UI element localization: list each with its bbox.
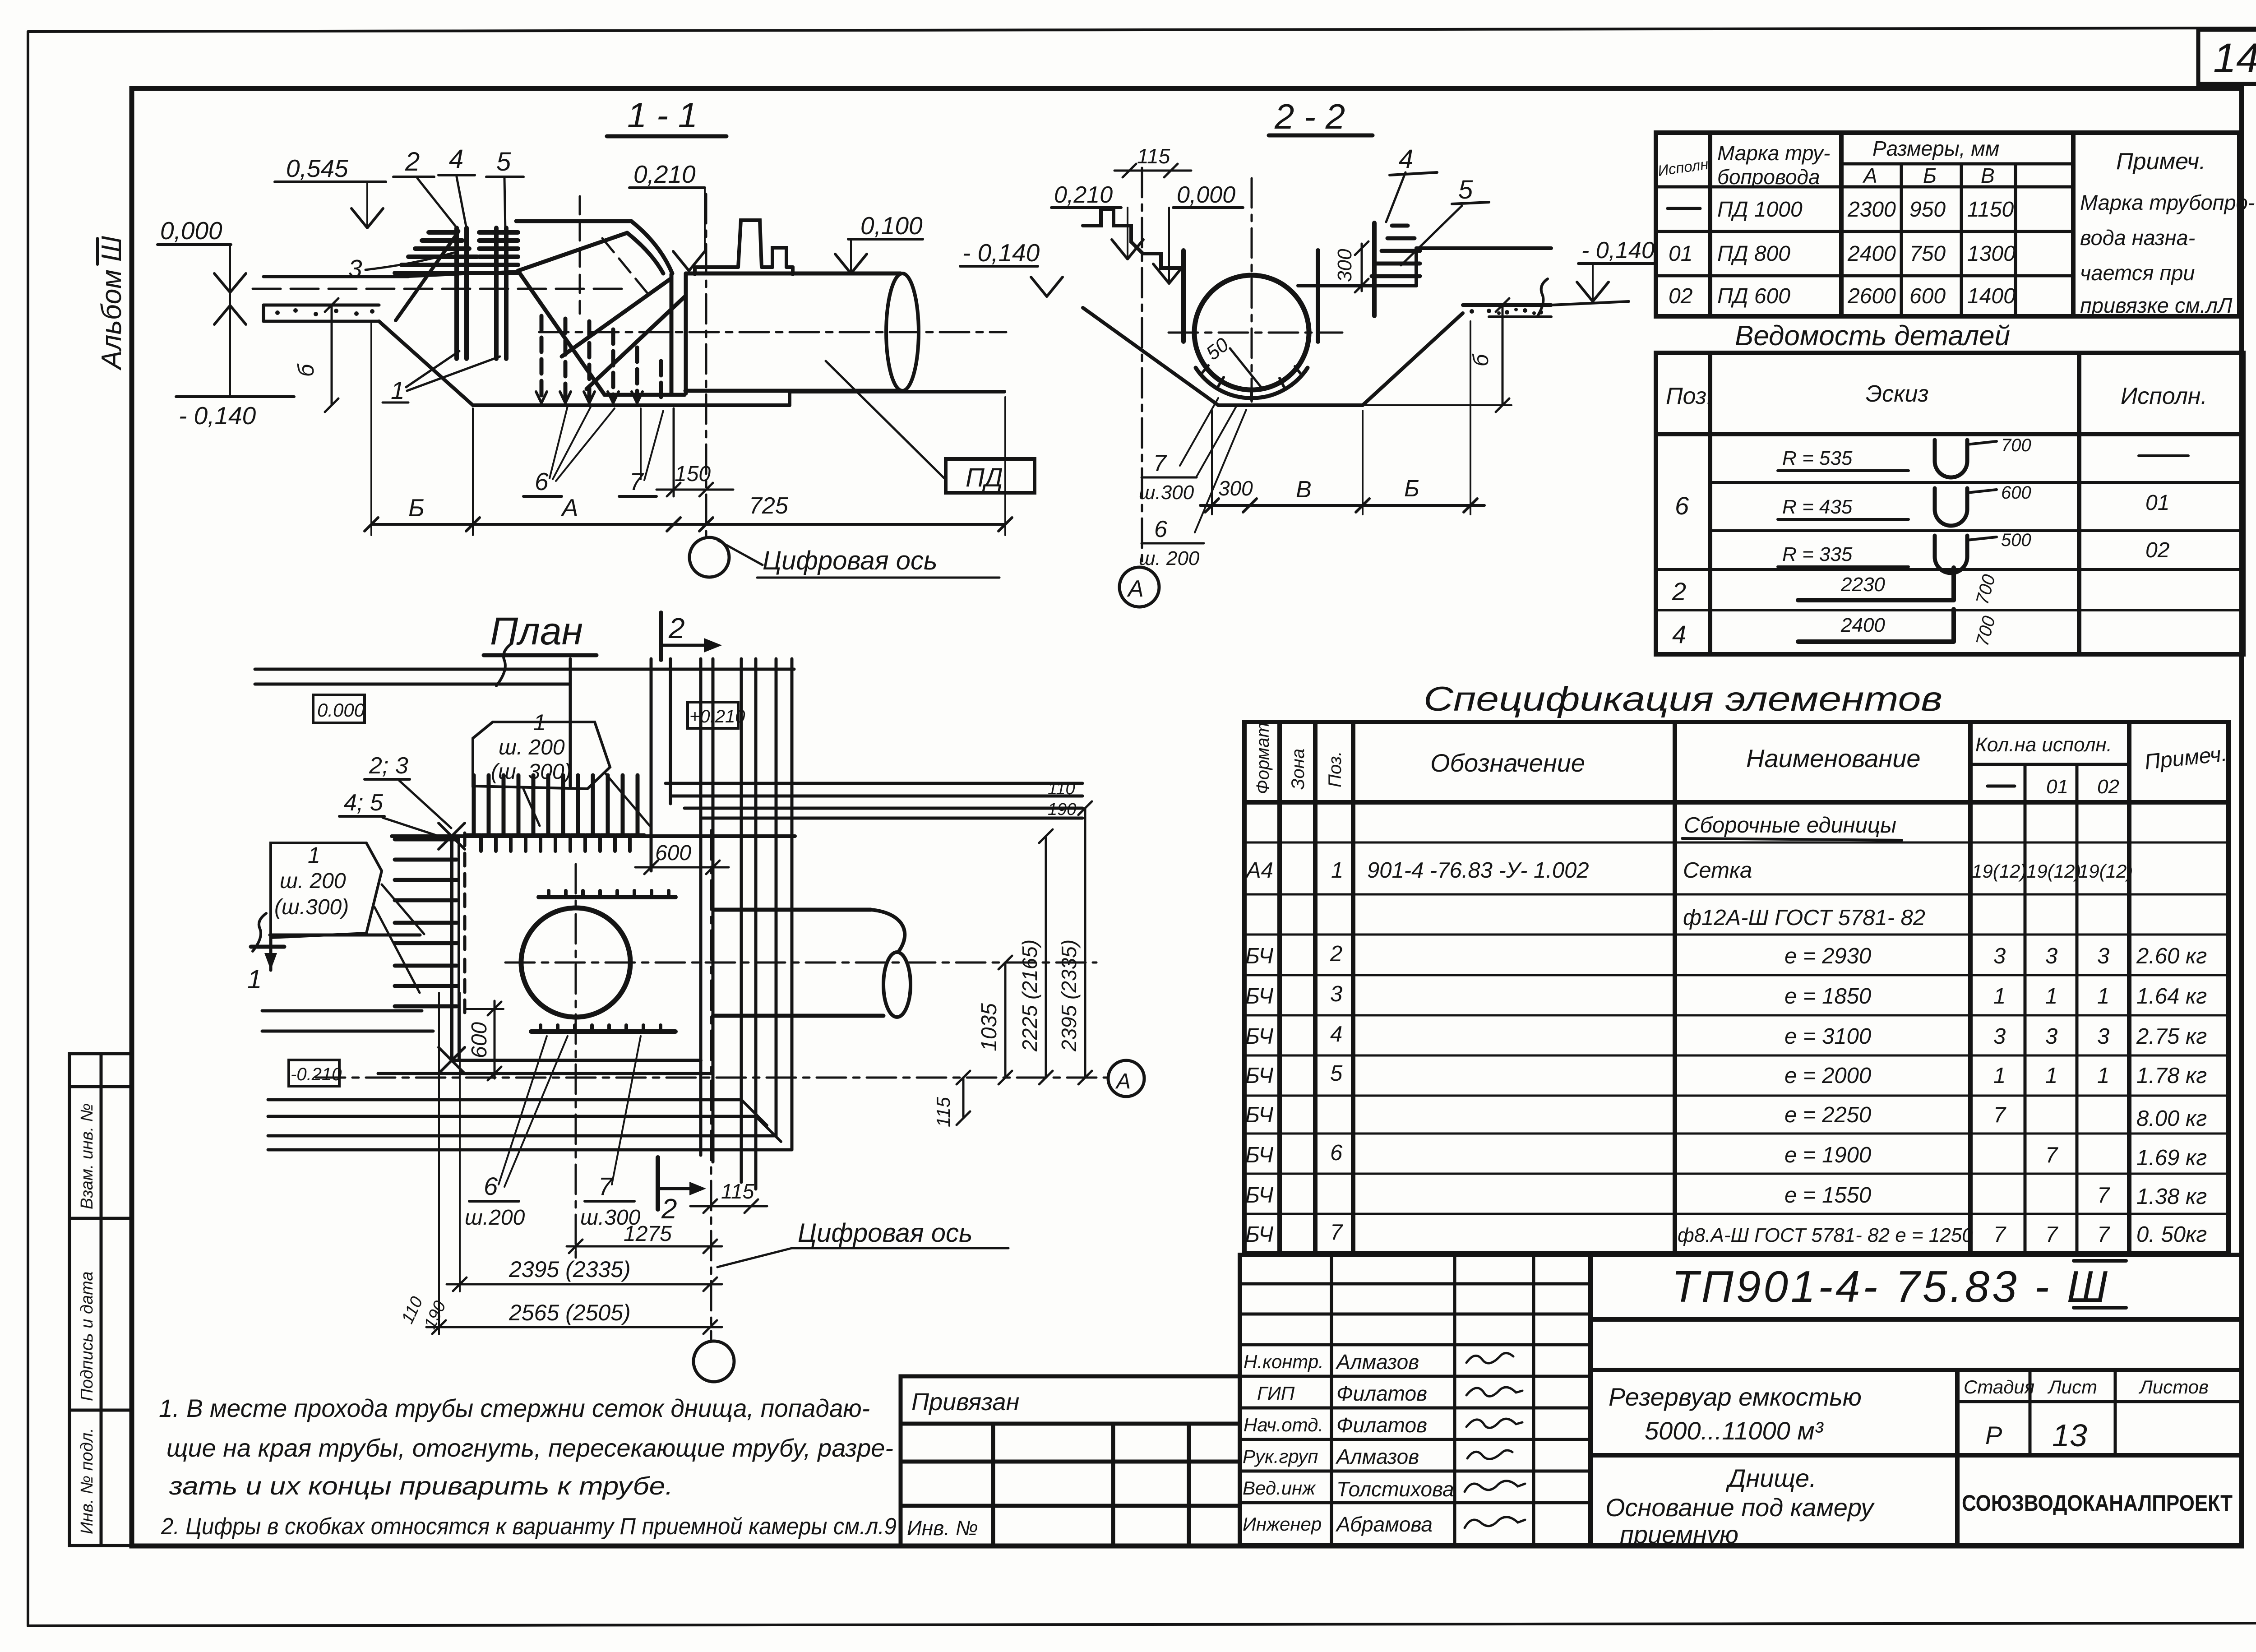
elevation -0,140 (2-2 right) xyxy=(1551,264,1654,305)
svg-text:привязке см.лЛ: привязке см.лЛ xyxy=(2080,293,2233,317)
svg-text:ш.200: ш.200 xyxy=(465,1206,525,1230)
left stamp strip xyxy=(69,1054,132,1546)
svg-text:3: 3 xyxy=(2045,1024,2057,1049)
foundation funnel body xyxy=(516,221,686,395)
svg-text:СОЮЗВОДОКАНАЛПРОЕКТ: СОЮЗВОДОКАНАЛПРОЕКТ xyxy=(1962,1490,2233,1516)
big circle pipe hole xyxy=(521,908,630,1017)
svg-text:Исполн.: Исполн. xyxy=(2121,383,2207,409)
svg-text:Н.контр.: Н.контр. xyxy=(1244,1351,1324,1372)
svg-text:Инв. №: Инв. № xyxy=(907,1516,978,1540)
specification rows text xyxy=(1245,813,2207,1247)
svg-text:4: 4 xyxy=(1330,1022,1342,1046)
svg-text:6: 6 xyxy=(484,1172,498,1200)
svg-text:2225 (2165): 2225 (2165) xyxy=(1018,939,1041,1052)
sketch pos4 bar 2400 xyxy=(1798,609,1999,648)
elevation mark 0,100 xyxy=(835,239,923,273)
svg-text:500: 500 xyxy=(2001,530,2031,550)
specification header texts xyxy=(1253,722,1345,794)
svg-text:Кол.на исполн.: Кол.на исполн. xyxy=(1975,734,2112,756)
svg-text:1: 1 xyxy=(1331,858,1343,883)
svg-text:Вед.инж: Вед.инж xyxy=(1243,1477,1316,1499)
sketch R=335 xyxy=(1778,530,2031,573)
pit slope and bottom xyxy=(379,321,1004,405)
svg-text:б: б xyxy=(293,363,319,377)
teeth row lower xyxy=(531,1029,675,1034)
svg-text:3: 3 xyxy=(2097,1024,2109,1049)
svg-text:0,210: 0,210 xyxy=(1054,182,1113,208)
svg-text:ПД: ПД xyxy=(966,463,1003,492)
svg-text:Размеры, мм: Размеры, мм xyxy=(1872,137,1999,160)
svg-text:950: 950 xyxy=(1909,198,1946,222)
plan top edge lines xyxy=(255,669,794,684)
svg-text:19(12): 19(12) xyxy=(2026,861,2081,882)
stadia list listov xyxy=(1957,1370,2242,1455)
svg-text:Марка трубопро-: Марка трубопро- xyxy=(2080,190,2255,214)
svg-text:7: 7 xyxy=(1993,1103,2006,1127)
svg-text:01: 01 xyxy=(2145,491,2169,515)
left section mark 1 xyxy=(247,937,284,994)
vedomost table grid xyxy=(1656,353,2243,654)
svg-text:4; 5: 4; 5 xyxy=(344,790,384,816)
svg-text:БЧ: БЧ xyxy=(1245,1064,1274,1088)
svg-text:(ш.300): (ш.300) xyxy=(274,895,349,919)
elevation mark -0,140 mid xyxy=(960,266,1063,296)
svg-text:Б: Б xyxy=(408,494,425,522)
svg-text:300: 300 xyxy=(1334,249,1356,282)
svg-text:Днище.: Днище. xyxy=(1725,1464,1817,1492)
object name xyxy=(1605,1383,1875,1549)
svg-text:Альбом Ш: Альбом Ш xyxy=(96,236,127,371)
svg-text:Листов: Листов xyxy=(2138,1376,2209,1397)
svg-text:R = 435: R = 435 xyxy=(1782,496,1853,518)
svg-text:Подпись и дата: Подпись и дата xyxy=(78,1272,97,1401)
bottom dimension (2-2) xyxy=(1200,321,1484,514)
svg-text:А: А xyxy=(1127,576,1144,602)
svg-text:1.38 кг: 1.38 кг xyxy=(2136,1185,2207,1209)
svg-text:0,000: 0,000 xyxy=(160,217,222,245)
svg-text:901-4 -76.83 -У- 1.002: 901-4 -76.83 -У- 1.002 xyxy=(1367,858,1589,883)
svg-text:Поз.: Поз. xyxy=(1325,751,1345,788)
svg-text:2. Цифры в скобках относятся к: 2. Цифры в скобках относятся к варианту … xyxy=(161,1513,897,1540)
svg-text:1: 1 xyxy=(2045,984,2057,1009)
svg-text:e = 2250: e = 2250 xyxy=(1784,1103,1871,1127)
svg-text:ГИП: ГИП xyxy=(1257,1383,1295,1404)
elevation mark 0,000 left xyxy=(157,245,246,397)
svg-text:- 0,140: - 0,140 xyxy=(179,402,256,430)
svg-text:3: 3 xyxy=(2097,944,2109,968)
notes text xyxy=(159,1394,897,1540)
svg-text:Наименование: Наименование xyxy=(1746,744,1920,773)
svg-text:Б: Б xyxy=(1404,476,1419,502)
bottom axis bubble plan xyxy=(693,1341,734,1382)
svg-text:А: А xyxy=(1862,164,1877,187)
label 7 sh300 plan xyxy=(580,1036,641,1230)
svg-text:7: 7 xyxy=(1330,1220,1343,1245)
svg-text:700: 700 xyxy=(2001,435,2031,455)
svg-text:БЧ: БЧ xyxy=(1245,984,1274,1009)
pipe mark table grid xyxy=(1656,133,2239,316)
names labels xyxy=(1243,1351,1324,1535)
svg-text:02: 02 xyxy=(2145,538,2169,562)
top mesh hatch xyxy=(474,775,638,834)
svg-text:6: 6 xyxy=(535,467,549,495)
pipe mark table header texts xyxy=(1657,137,2206,189)
svg-text:БЧ: БЧ xyxy=(1245,1222,1274,1247)
mesh stack (2-2) xyxy=(1372,226,1420,276)
dash in first row xyxy=(1668,207,1700,210)
svg-text:4: 4 xyxy=(1399,144,1413,174)
svg-text:3: 3 xyxy=(1993,944,2006,968)
west channel top wall line xyxy=(270,934,420,937)
circle center cross xyxy=(1169,332,1342,334)
svg-text:Сетка: Сетка xyxy=(1683,858,1752,883)
svg-text:110: 110 xyxy=(1048,779,1075,798)
castellated wall above pipe xyxy=(695,220,793,274)
svg-text:2: 2 xyxy=(661,1194,677,1225)
svg-text:600: 600 xyxy=(2001,483,2031,503)
designation text xyxy=(1672,1261,2126,1311)
svg-text:Взам. инв. №: Взам. инв. № xyxy=(78,1103,97,1209)
svg-text:ПД 800: ПД 800 xyxy=(1717,242,1790,266)
pit top edge xyxy=(392,834,795,838)
svg-text:3: 3 xyxy=(348,255,362,282)
svg-text:Резервуар емкостью: Резервуар емкостью xyxy=(1609,1383,1862,1411)
rebar labels 2 4 5 xyxy=(393,144,523,231)
vertical axis line xyxy=(705,194,707,537)
svg-text:14: 14 xyxy=(2213,35,2256,81)
svg-text:700: 700 xyxy=(1972,614,1999,648)
svg-text:7: 7 xyxy=(2045,1222,2058,1247)
left break squiggle plan xyxy=(253,913,266,951)
svg-text:750: 750 xyxy=(1909,242,1946,266)
svg-text:1: 1 xyxy=(308,842,320,868)
svg-text:БЧ: БЧ xyxy=(1245,1183,1274,1208)
svg-text:Марка тру-: Марка тру- xyxy=(1717,141,1830,165)
svg-text:1400: 1400 xyxy=(1967,284,2016,308)
axis bubble A (2-2) xyxy=(1119,567,1159,607)
svg-text:e = 2930: e = 2930 xyxy=(1784,944,1871,968)
svg-text:Стадия: Стадия xyxy=(1964,1376,2034,1397)
svg-text:3: 3 xyxy=(1330,982,1342,1006)
step lines right xyxy=(1298,248,1551,286)
svg-text:3: 3 xyxy=(2045,944,2057,968)
vedomost header texts xyxy=(1666,381,2207,409)
svg-text:1 - 1: 1 - 1 xyxy=(627,95,698,135)
svg-text:0.000: 0.000 xyxy=(317,699,365,721)
svg-text:700: 700 xyxy=(1972,572,1999,606)
svg-text:Ведомость деталей: Ведомость деталей xyxy=(1735,320,2010,352)
svg-text:Исполн.: Исполн. xyxy=(1657,155,1714,179)
svg-text:+0.210: +0.210 xyxy=(689,707,745,727)
sheet number box 14 xyxy=(2198,30,2256,84)
pipe mark note text xyxy=(2080,190,2255,317)
svg-text:13: 13 xyxy=(2052,1418,2087,1453)
elevation mark 0,545 xyxy=(275,182,386,228)
svg-text:2: 2 xyxy=(1672,577,1686,606)
svg-text:А: А xyxy=(560,494,578,522)
svg-text:-0.210: -0.210 xyxy=(291,1064,342,1084)
svg-text:зать и их концы приварить к т: зать и их концы приварить к трубе. xyxy=(169,1472,673,1500)
underline for sborochnye xyxy=(1682,838,1902,840)
svg-text:2; 3: 2; 3 xyxy=(369,753,408,779)
svg-text:1: 1 xyxy=(1993,1064,2006,1088)
svg-text:Р: Р xyxy=(1985,1421,2002,1449)
svg-text:4: 4 xyxy=(449,144,463,174)
svg-text:0. 50кг: 0. 50кг xyxy=(2136,1222,2207,1247)
svg-text:2565 (2505): 2565 (2505) xyxy=(509,1300,631,1325)
elevation mark -0,140 left xyxy=(176,395,294,398)
svg-text:7: 7 xyxy=(2097,1183,2110,1208)
stamp strip labels xyxy=(78,1103,97,1534)
svg-text:1300: 1300 xyxy=(1967,242,2016,266)
ground line left xyxy=(264,275,408,278)
svg-text:0,100: 0,100 xyxy=(860,212,923,240)
svg-text:ш.300: ш.300 xyxy=(1139,481,1194,504)
svg-text:1035: 1035 xyxy=(977,1003,1001,1051)
svg-text:щие на края трубы, отогнуть, п: щие на края трубы, отогнуть, пересекающи… xyxy=(166,1434,893,1462)
svg-text:e = 3100: e = 3100 xyxy=(1784,1024,1871,1049)
svg-text:4: 4 xyxy=(1672,620,1686,648)
internal dash lines xyxy=(580,196,652,314)
axis dashed line xyxy=(253,288,629,290)
top callout 1 sh200 xyxy=(473,710,650,826)
svg-text:вода назна-: вода назна- xyxy=(2080,226,2195,250)
svg-text:- 0,140: - 0,140 xyxy=(962,239,1040,267)
pipe in plan xyxy=(713,910,883,1016)
svg-text:02: 02 xyxy=(1669,284,1692,308)
svg-text:1275: 1275 xyxy=(624,1222,672,1246)
svg-text:Цифровая ось: Цифровая ось xyxy=(763,546,938,575)
svg-text:R = 335: R = 335 xyxy=(1782,543,1853,565)
svg-text:Поз.: Поз. xyxy=(1666,383,1713,409)
svg-text:1150: 1150 xyxy=(1967,198,2014,222)
svg-text:Обозначение: Обозначение xyxy=(1430,749,1585,777)
teeth row upper xyxy=(539,895,675,899)
svg-text:5000...11000 м³: 5000...11000 м³ xyxy=(1645,1416,1824,1445)
svg-text:1.78 кг: 1.78 кг xyxy=(2136,1064,2207,1088)
axis bubble xyxy=(689,537,729,577)
corner diagonal joins xyxy=(741,1100,781,1142)
pit bottom lines xyxy=(378,1060,713,1074)
svg-text:Б: Б xyxy=(1923,164,1937,187)
title block outer lines xyxy=(1240,1255,2242,1546)
svg-text:19(12): 19(12) xyxy=(2078,861,2133,882)
album label rotated xyxy=(96,236,127,371)
svg-text:600: 600 xyxy=(1909,284,1946,308)
section 1-1 title xyxy=(607,95,726,136)
svg-text:Нач.отд.: Нач.отд. xyxy=(1244,1414,1323,1435)
svg-text:ПД 600: ПД 600 xyxy=(1717,284,1790,308)
svg-text:приемную: приемную xyxy=(1620,1520,1738,1549)
svg-text:2.60 кг: 2.60 кг xyxy=(2136,944,2207,968)
svg-text:План: План xyxy=(490,610,583,653)
svg-text:БЧ: БЧ xyxy=(1245,1024,1274,1049)
circled A plan xyxy=(1108,1060,1144,1097)
svg-text:2300: 2300 xyxy=(1847,198,1896,222)
pipe body xyxy=(685,273,901,391)
svg-text:Филатов: Филатов xyxy=(1336,1382,1427,1405)
hidden edge dashed inside pit xyxy=(458,838,460,1060)
PD box xyxy=(826,361,1035,493)
pipe centerline xyxy=(539,331,1006,333)
bank profile left (2-2) xyxy=(1083,209,1184,268)
svg-text:725: 725 xyxy=(749,493,789,519)
svg-text:7: 7 xyxy=(1993,1222,2006,1247)
svg-text:Привязан: Привязан xyxy=(911,1388,1019,1416)
svg-text:Толстихова: Толстихова xyxy=(1336,1477,1454,1501)
dim 115 top xyxy=(1114,144,1191,177)
svg-text:0,545: 0,545 xyxy=(286,154,348,182)
bedding ticks xyxy=(1202,366,1301,400)
svg-text:БЧ: БЧ xyxy=(1245,1103,1274,1127)
svg-text:0,210: 0,210 xyxy=(633,160,696,188)
svg-text:2: 2 xyxy=(405,147,420,176)
labels 6 sh200 (2-2) xyxy=(1139,410,1246,569)
svg-text:5: 5 xyxy=(1458,175,1473,204)
svg-text:Лист: Лист xyxy=(2047,1376,2097,1397)
svg-text:6: 6 xyxy=(1154,516,1167,542)
svg-text:(ш. 300): (ш. 300) xyxy=(491,760,572,784)
svg-text:Спецификация элементов: Спецификация элементов xyxy=(1424,680,1942,718)
rebar dowels vertical xyxy=(457,228,506,359)
specification table grid xyxy=(1244,722,2228,1253)
svg-text:7: 7 xyxy=(1153,450,1167,477)
svg-text:Цифровая ось: Цифровая ось xyxy=(798,1218,973,1248)
svg-text:600: 600 xyxy=(655,841,691,865)
svg-text:Алмазов: Алмазов xyxy=(1335,1350,1419,1374)
svg-text:2.75 кг: 2.75 кг xyxy=(2136,1024,2207,1049)
svg-text:1.69 кг: 1.69 кг xyxy=(2136,1146,2207,1170)
names table grid xyxy=(1240,1255,1590,1546)
svg-text:e = 1900: e = 1900 xyxy=(1784,1143,1871,1167)
plan axes dash-dot xyxy=(316,830,1106,1341)
privyazan block grid xyxy=(901,1376,1240,1546)
svg-text:115: 115 xyxy=(721,1180,754,1203)
svg-text:3: 3 xyxy=(1993,1024,2006,1049)
svg-text:ф8.А-Ш ГОСТ 5781- 82 e = 1250: ф8.А-Ш ГОСТ 5781- 82 e = 1250 xyxy=(1678,1224,1973,1246)
sloped face line xyxy=(396,232,458,320)
elevation 0,000 (2-2) xyxy=(1153,208,1243,283)
svg-text:115: 115 xyxy=(933,1097,954,1127)
west channel wall lines xyxy=(262,1011,792,1150)
svg-text:Инженер: Инженер xyxy=(1243,1513,1322,1535)
concrete strip hatched xyxy=(264,305,379,321)
svg-text:- 0,140: - 0,140 xyxy=(1581,237,1655,264)
svg-text:2: 2 xyxy=(1330,942,1342,966)
svg-text:чается при: чается при xyxy=(2080,261,2195,285)
svg-text:7: 7 xyxy=(629,467,644,495)
svg-text:А: А xyxy=(1115,1069,1131,1093)
break squiggle (2-2) xyxy=(1538,279,1548,316)
svg-text:2400: 2400 xyxy=(1840,614,1885,636)
section mark 2 plan xyxy=(658,1157,706,1225)
svg-text:190: 190 xyxy=(1048,800,1076,819)
section 2-2 title xyxy=(1269,97,1373,136)
elevation 0,210 (2-2) xyxy=(1051,208,1143,259)
svg-text:БЧ: БЧ xyxy=(1245,944,1274,968)
svg-text:2395 (2335): 2395 (2335) xyxy=(509,1257,631,1282)
svg-text:ш. 200: ш. 200 xyxy=(280,869,346,893)
pipe end ellipse xyxy=(886,273,919,391)
svg-text:7: 7 xyxy=(598,1172,613,1200)
bedding arc under pipe xyxy=(1196,368,1308,398)
svg-text:01: 01 xyxy=(2046,776,2068,798)
svg-text:1: 1 xyxy=(2045,1064,2057,1088)
svg-text:А4: А4 xyxy=(1245,858,1273,883)
svg-text:02: 02 xyxy=(2097,776,2119,798)
names values xyxy=(1335,1350,1454,1536)
plan wall verticals xyxy=(570,659,792,1189)
svg-text:8.00 кг: 8.00 кг xyxy=(2136,1106,2207,1131)
svg-text:Рук.груп: Рук.груп xyxy=(1243,1446,1318,1467)
svg-text:Примеч.: Примеч. xyxy=(2116,148,2206,175)
label 6 sh200 plan xyxy=(465,1036,568,1230)
vedomost pos numbers xyxy=(1672,491,1689,648)
svg-text:2395 (2335): 2395 (2335) xyxy=(1057,939,1081,1052)
svg-text:600: 600 xyxy=(467,1022,491,1058)
svg-text:50: 50 xyxy=(1202,333,1233,365)
vertical dim b (2-2) xyxy=(1363,298,1512,412)
plan wall horizontals right xyxy=(666,783,1082,818)
svg-text:7: 7 xyxy=(2097,1222,2110,1247)
top break squiggle xyxy=(496,643,512,686)
svg-text:ш. 200: ш. 200 xyxy=(1139,547,1200,569)
svg-text:300: 300 xyxy=(1218,477,1253,500)
svg-text:Формат: Формат xyxy=(1253,722,1273,794)
svg-text:2: 2 xyxy=(668,612,685,644)
svg-text:e = 1550: e = 1550 xyxy=(1784,1183,1871,1208)
svg-text:ПД 1000: ПД 1000 xyxy=(1717,198,1803,222)
svg-text:115: 115 xyxy=(1137,144,1170,168)
svg-text:БЧ: БЧ xyxy=(1245,1143,1274,1167)
mesh rows sloped wall xyxy=(395,232,518,273)
svg-text:Алмазов: Алмазов xyxy=(1335,1445,1419,1468)
svg-text:5: 5 xyxy=(496,147,511,176)
svg-text:Сборочные единицы: Сборочные единицы xyxy=(1684,813,1896,838)
svg-text:В: В xyxy=(1981,164,1995,187)
section mark 2 bottom xyxy=(661,612,722,660)
svg-text:2 - 2: 2 - 2 xyxy=(1274,97,1345,136)
pit corner X marks xyxy=(439,823,465,1074)
svg-text:5: 5 xyxy=(1330,1061,1343,1086)
svg-text:e = 1850: e = 1850 xyxy=(1784,984,1871,1009)
svg-text:6: 6 xyxy=(1330,1141,1343,1165)
excavation profile (2-2) xyxy=(1083,305,1551,405)
sketch pos2 bar 2230 xyxy=(1798,568,1999,606)
svg-text:1: 1 xyxy=(391,376,405,404)
svg-text:ТП901-4- 75.83 - Ш: ТП901-4- 75.83 - Ш xyxy=(1672,1262,2110,1311)
left mesh hatch xyxy=(395,839,457,1006)
svg-text:Основание под камеру: Основание под камеру xyxy=(1605,1493,1875,1522)
svg-text:1.64 кг: 1.64 кг xyxy=(2136,984,2207,1009)
svg-text:R = 535: R = 535 xyxy=(1782,447,1853,469)
svg-text:1: 1 xyxy=(2097,984,2109,1009)
svg-text:Инв. № подл.: Инв. № подл. xyxy=(78,1428,97,1534)
signatures squiggles xyxy=(1465,1353,1525,1528)
labels 6 and 7 below xyxy=(523,406,663,496)
svg-text:19(12): 19(12) xyxy=(1972,861,2026,882)
svg-text:бопровода: бопровода xyxy=(1717,165,1820,189)
pipe circle (2-2) xyxy=(1194,275,1309,390)
plan title xyxy=(484,610,596,655)
svg-text:e = 2000: e = 2000 xyxy=(1784,1064,1871,1088)
svg-text:Абрамова: Абрамова xyxy=(1335,1513,1433,1536)
svg-text:2600: 2600 xyxy=(1847,284,1896,308)
svg-text:Филатов: Филатов xyxy=(1336,1413,1427,1437)
svg-text:2230: 2230 xyxy=(1840,574,1885,596)
labels 7 sh300 (2-2) xyxy=(1139,398,1237,504)
svg-text:0,000: 0,000 xyxy=(1177,182,1235,208)
